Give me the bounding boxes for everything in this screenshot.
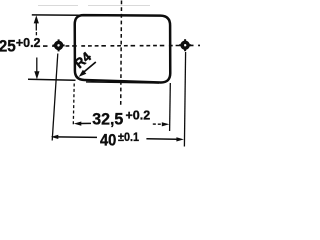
svg-text:+0.2: +0.2 — [126, 108, 151, 123]
svg-text:40: 40 — [100, 132, 116, 148]
svg-text:+0.2: +0.2 — [16, 35, 41, 50]
svg-text:25: 25 — [0, 37, 16, 56]
svg-text:±0.1: ±0.1 — [118, 130, 139, 144]
svg-text:32,5: 32,5 — [92, 111, 123, 129]
